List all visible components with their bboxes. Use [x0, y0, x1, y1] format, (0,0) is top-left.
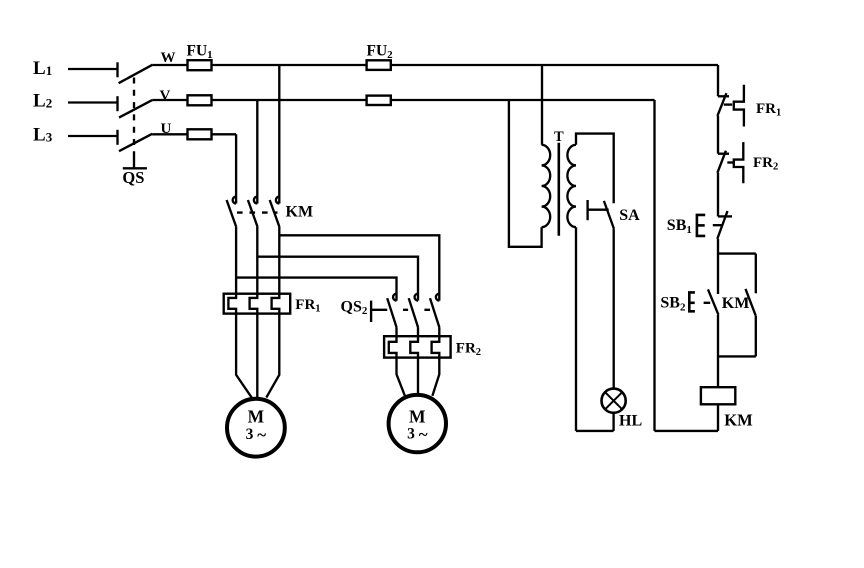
svg-text:HL: HL — [619, 413, 642, 430]
svg-text:T: T — [554, 129, 564, 145]
svg-text:M: M — [248, 406, 265, 426]
svg-text:3 ~: 3 ~ — [246, 426, 267, 445]
svg-text:U: U — [161, 121, 172, 137]
svg-text:W: W — [161, 50, 176, 66]
svg-text:M: M — [409, 406, 426, 426]
svg-text:KM: KM — [724, 411, 753, 430]
svg-text:SA: SA — [619, 207, 640, 224]
svg-text:KM: KM — [286, 204, 314, 221]
svg-text:3 ~: 3 ~ — [407, 425, 428, 444]
svg-text:KM: KM — [722, 295, 750, 312]
svg-text:V: V — [160, 88, 171, 104]
svg-text:QS: QS — [122, 168, 144, 187]
